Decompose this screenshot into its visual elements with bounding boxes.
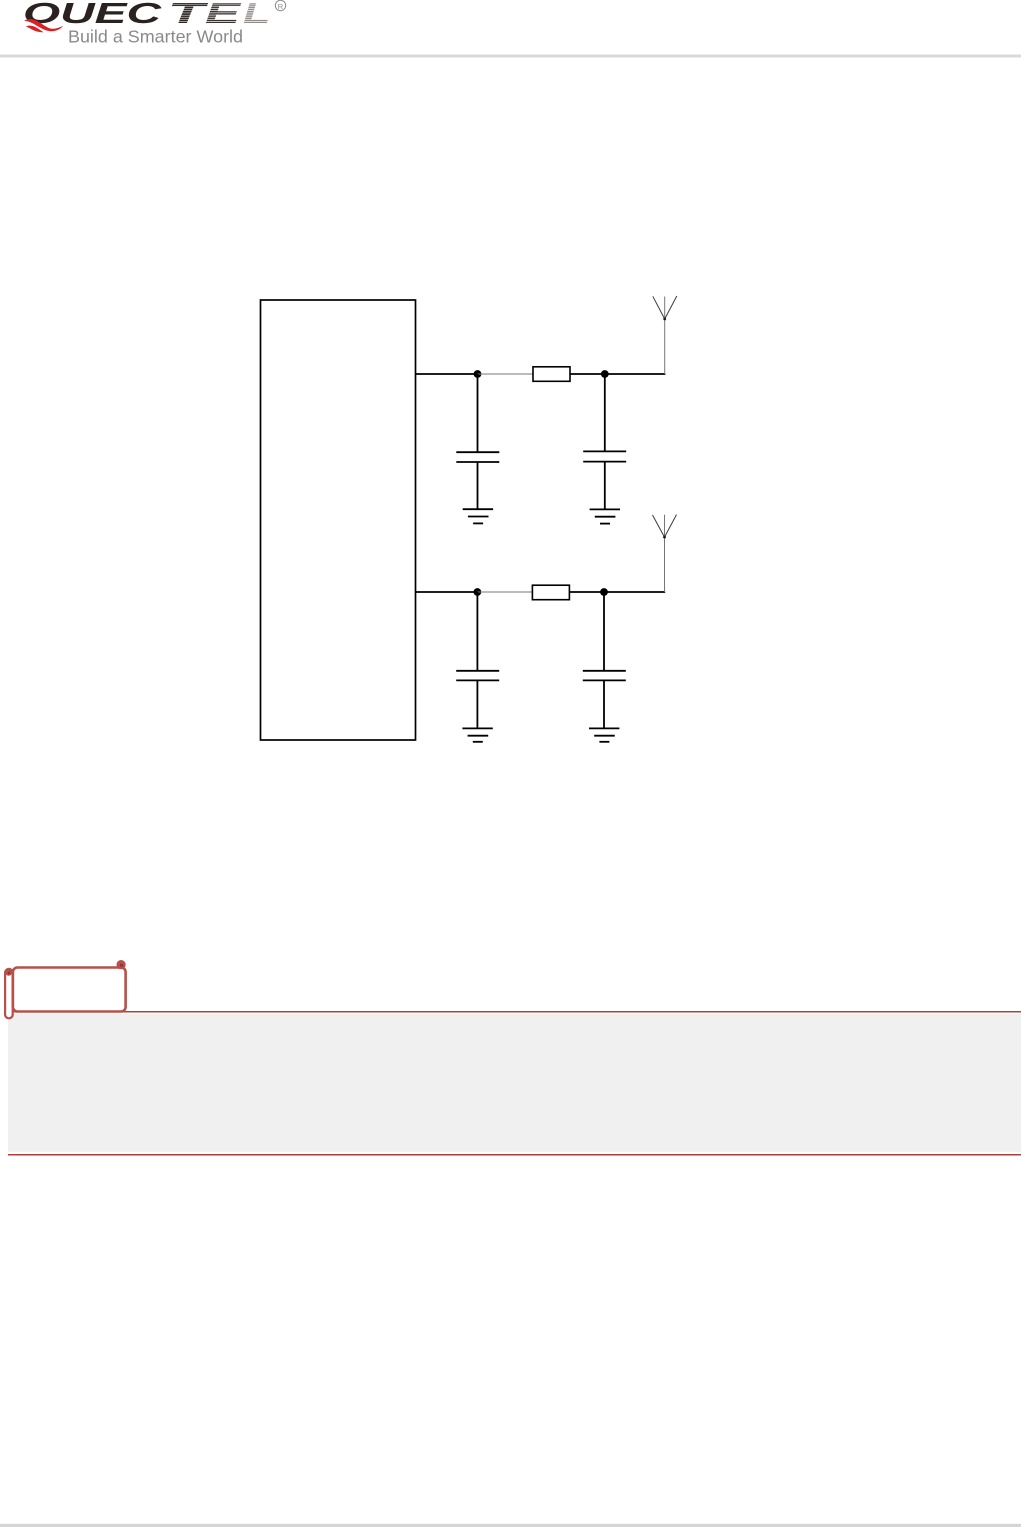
- wire: R2 to node J4: [569, 591, 604, 593]
- antenna ANT2 feed line: [664, 515, 666, 592]
- svg-text:R: R: [278, 2, 284, 11]
- svg-text:Build a Smarter World: Build a Smarter World: [68, 27, 243, 47]
- svg-text:E: E: [205, 0, 243, 30]
- note scroll icon: top-left pin: [5, 969, 12, 976]
- capacitor C2 lead to ground: [604, 462, 606, 510]
- capacitor C3: [456, 670, 499, 672]
- footer rule: [0, 1524, 1021, 1527]
- resistor R1: [533, 367, 570, 382]
- ground GND1: [463, 509, 493, 523]
- ground GND2: [590, 509, 620, 523]
- note scroll icon: left roll: [5, 969, 13, 1018]
- capacitor C2: [583, 450, 626, 452]
- note section bottom red rule: [8, 1154, 1021, 1156]
- antenna ANT1 feed line: [664, 297, 666, 375]
- wire: module to node J3 (bottom RF trace): [416, 591, 478, 593]
- logo red swoosh: [24, 19, 63, 31]
- note section top red rule: [8, 1011, 1021, 1013]
- node J1 (junction dot): [474, 370, 482, 378]
- ground GND4: [589, 728, 619, 741]
- capacitor C1 lead from J1: [477, 374, 479, 452]
- resistor R2: [532, 585, 569, 600]
- svg-text:L: L: [243, 0, 270, 30]
- node J3 (junction dot): [474, 588, 482, 596]
- capacitor C3 lead to ground: [476, 680, 478, 728]
- antenna ANT2 symbol: [653, 515, 677, 538]
- capacitor C1: [456, 451, 499, 453]
- wire: module to node J1 (top RF trace): [416, 373, 478, 375]
- capacitor C4: [583, 670, 626, 672]
- capacitor C2 lead from J2: [604, 374, 606, 451]
- wire: R1 to node J2: [570, 373, 605, 375]
- antenna ANT1 symbol: [653, 296, 677, 319]
- svg-text:T: T: [168, 0, 209, 30]
- module block (left rectangle): [261, 300, 416, 740]
- ground GND3: [462, 728, 492, 741]
- registered trademark symbol: [275, 0, 285, 10]
- node J4 (junction dot): [600, 588, 608, 596]
- wire: J2 to antenna ANT1: [605, 373, 666, 375]
- Quectel logo wordmark L (striped light): [243, 0, 270, 30]
- capacitor C1 lead to ground: [477, 462, 479, 509]
- wire: J4 to antenna ANT2: [604, 591, 665, 593]
- wire: J3 to resistor R2 (thin gray): [477, 591, 532, 593]
- capacitor C3 lead from J3: [476, 592, 478, 671]
- capacitor C4 lead to ground: [603, 680, 605, 728]
- note section gray band: [8, 1014, 1021, 1152]
- note scroll icon: main body: [13, 968, 126, 1012]
- header rule: [0, 55, 1021, 58]
- wire: J1 to resistor R1 (thin gray): [478, 373, 534, 375]
- capacitor C4 lead from J4: [603, 592, 605, 671]
- note scroll icon: top-right pin: [117, 960, 126, 969]
- node J2 (junction dot): [601, 370, 609, 378]
